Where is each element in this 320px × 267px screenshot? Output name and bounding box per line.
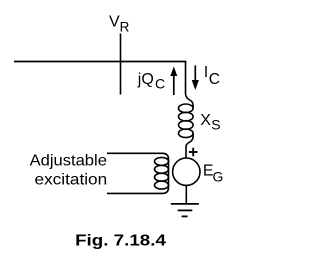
svg-text:X: X: [200, 112, 211, 129]
svg-text:G: G: [213, 168, 224, 184]
svg-text:Adjustable: Adjustable: [30, 153, 107, 170]
svg-text:jQ: jQ: [137, 71, 154, 88]
svg-text:Fig. 7.18.4: Fig. 7.18.4: [75, 233, 166, 250]
svg-text:excitation: excitation: [35, 171, 108, 188]
svg-text:R: R: [120, 19, 130, 34]
svg-text:I: I: [204, 64, 208, 81]
svg-text:C: C: [155, 76, 165, 92]
svg-text:C: C: [209, 71, 220, 88]
svg-text:V: V: [109, 14, 120, 31]
svg-text:S: S: [211, 117, 220, 133]
